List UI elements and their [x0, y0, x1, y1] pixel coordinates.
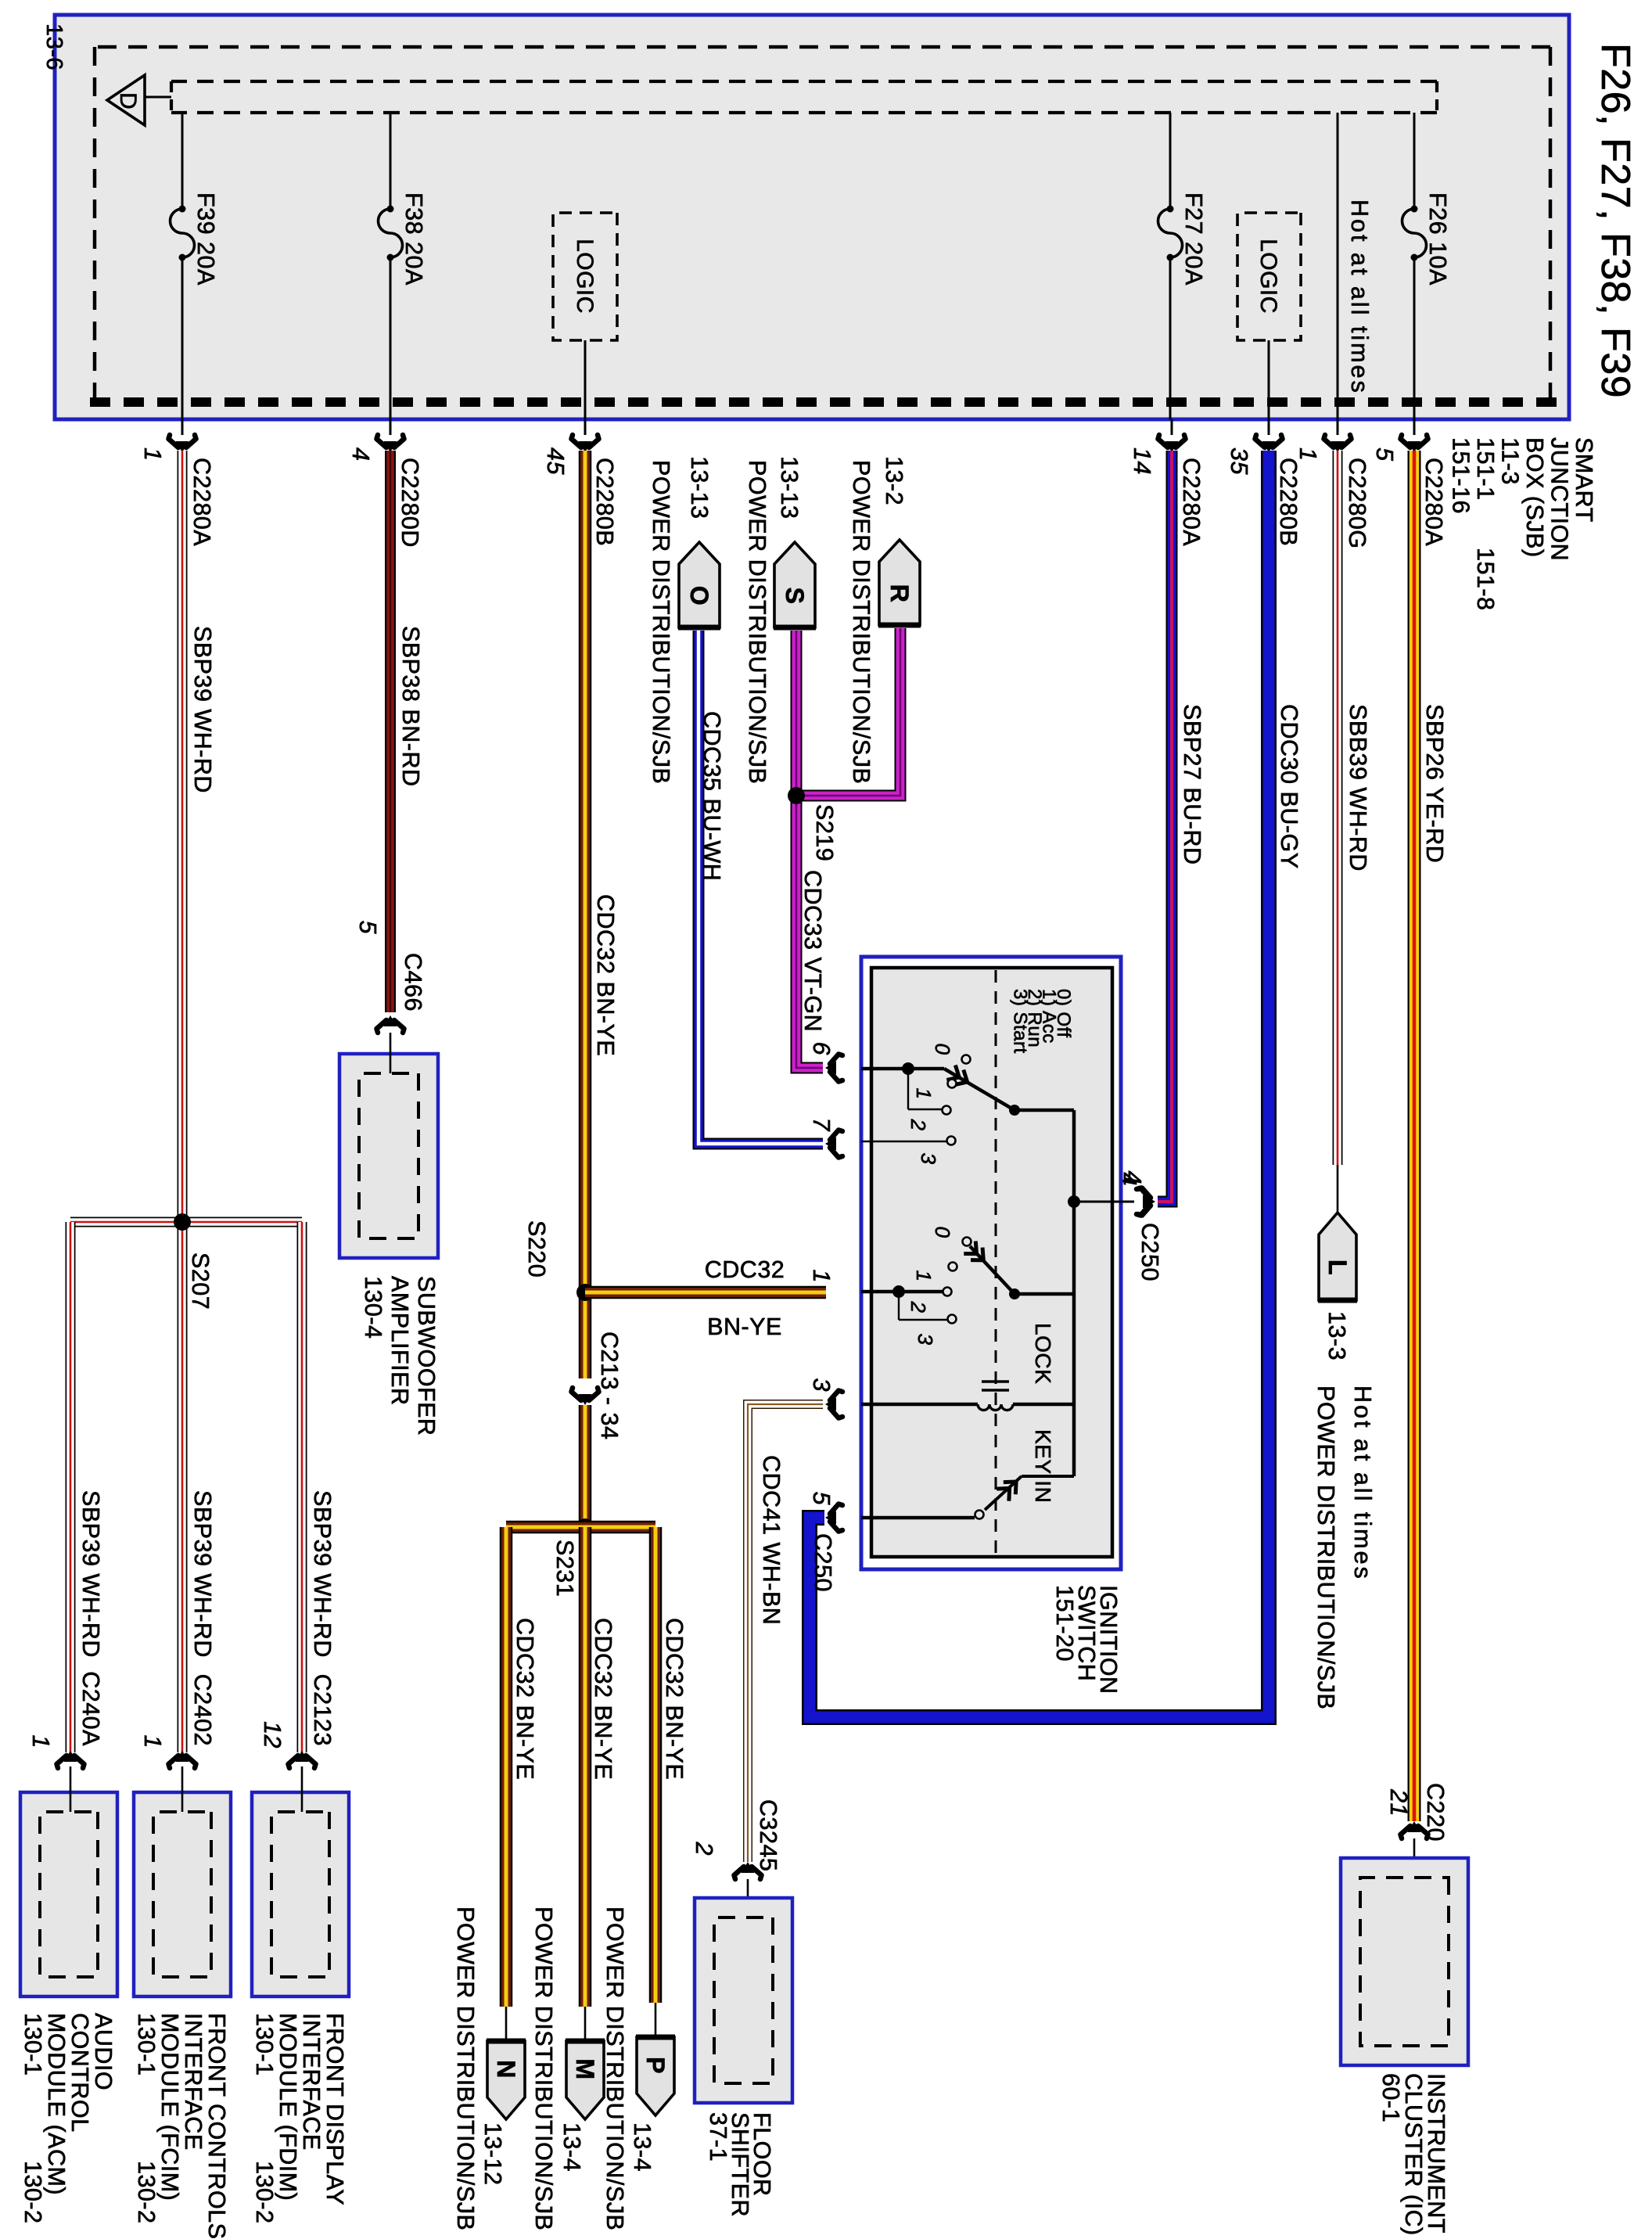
- svg-text:S231: S231: [551, 1540, 578, 1597]
- svg-text:INSTRUMENT: INSTRUMENT: [1423, 2073, 1449, 2234]
- svg-text:C220: C220: [1422, 1783, 1449, 1842]
- svg-text:SBP39 WH-RD: SBP39 WH-RD: [309, 1490, 336, 1658]
- svg-text:C250: C250: [810, 1533, 836, 1592]
- svg-text:5: 5: [354, 921, 381, 935]
- svg-text:4: 4: [1119, 1171, 1146, 1184]
- svg-text:SBB39 WH-RD: SBB39 WH-RD: [1345, 704, 1371, 872]
- svg-text:SBP38 BN-RD: SBP38 BN-RD: [397, 626, 424, 787]
- svg-text:S219: S219: [811, 804, 838, 861]
- svg-text:AUDIO: AUDIO: [90, 2013, 117, 2090]
- svg-text:BN-YE: BN-YE: [707, 1314, 782, 1340]
- svg-text:INTERFACE: INTERFACE: [180, 2013, 206, 2151]
- svg-text:C2402: C2402: [189, 1674, 216, 1746]
- svg-text:C2280A: C2280A: [189, 458, 215, 546]
- svg-text:INTERFACE: INTERFACE: [298, 2013, 325, 2151]
- svg-text:1: 1: [27, 1735, 54, 1748]
- svg-text:151-20: 151-20: [1051, 1585, 1078, 1662]
- svg-text:2: 2: [907, 1119, 930, 1131]
- svg-text:C2280B: C2280B: [1275, 458, 1302, 546]
- svg-text:13-4: 13-4: [629, 2122, 655, 2172]
- svg-text:13-13: 13-13: [686, 456, 713, 519]
- svg-text:13-4: 13-4: [558, 2122, 585, 2172]
- svg-text:SBP26 YE-RD: SBP26 YE-RD: [1421, 704, 1448, 863]
- svg-text:S207: S207: [187, 1252, 214, 1310]
- svg-text:35: 35: [1226, 447, 1252, 475]
- svg-text:3: 3: [917, 1153, 940, 1165]
- svg-text:SUBWOOFER: SUBWOOFER: [413, 1276, 440, 1436]
- svg-text:F26, F27, F38, F39: F26, F27, F38, F39: [1593, 43, 1638, 398]
- svg-text:MODULE (FCIM): MODULE (FCIM): [156, 2013, 183, 2201]
- svg-text:R: R: [885, 584, 914, 603]
- svg-text:MODULE (FDIM): MODULE (FDIM): [275, 2013, 301, 2201]
- svg-text:POWER DISTRIBUTION/SJB: POWER DISTRIBUTION/SJB: [744, 460, 770, 784]
- svg-text:CDC41 WH-BN: CDC41 WH-BN: [758, 1455, 785, 1625]
- svg-text:POWER DISTRIBUTION/SJB: POWER DISTRIBUTION/SJB: [452, 1907, 479, 2230]
- svg-text:Hot at all times: Hot at all times: [1346, 199, 1373, 395]
- svg-text:1: 1: [808, 1270, 835, 1283]
- svg-text:O: O: [685, 586, 713, 606]
- svg-text:C2280G: C2280G: [1344, 458, 1370, 549]
- svg-text:F27 20A: F27 20A: [1180, 192, 1207, 286]
- svg-text:C2280A: C2280A: [1178, 458, 1205, 546]
- svg-text:7: 7: [808, 1118, 835, 1132]
- svg-text:60-1: 60-1: [1377, 2073, 1404, 2122]
- svg-text:LOCK: LOCK: [1031, 1323, 1055, 1384]
- svg-text:1: 1: [139, 1735, 166, 1748]
- svg-text:POWER DISTRIBUTION/SJB: POWER DISTRIBUTION/SJB: [1313, 1385, 1339, 1709]
- svg-text:MODULE (ACM): MODULE (ACM): [43, 2013, 70, 2195]
- svg-text:AMPLIFIER: AMPLIFIER: [386, 1276, 413, 1406]
- svg-text:45: 45: [542, 447, 569, 475]
- svg-text:SMART: SMART: [1571, 437, 1597, 523]
- svg-text:0: 0: [931, 1044, 954, 1055]
- svg-text:3: 3: [914, 1334, 937, 1346]
- svg-text:FRONT CONTROLS: FRONT CONTROLS: [203, 2013, 230, 2239]
- svg-text:N: N: [492, 2060, 520, 2079]
- svg-text:F38 20A: F38 20A: [400, 192, 427, 286]
- svg-text:C466: C466: [400, 953, 426, 1012]
- svg-text:KEY IN: KEY IN: [1031, 1429, 1055, 1503]
- svg-text:130-1: 130-1: [20, 2013, 46, 2076]
- svg-text:12: 12: [259, 1721, 286, 1748]
- svg-text:37-1: 37-1: [705, 2112, 731, 2162]
- svg-text:130-4: 130-4: [360, 1276, 386, 1339]
- svg-text:F39 20A: F39 20A: [192, 192, 219, 286]
- svg-text:L: L: [1323, 1260, 1352, 1275]
- svg-text:21: 21: [1385, 1788, 1412, 1817]
- svg-text:SBP39 WH-RD: SBP39 WH-RD: [77, 1490, 104, 1658]
- svg-text:P: P: [641, 2057, 670, 2074]
- svg-text:POWER DISTRIBUTION/SJB: POWER DISTRIBUTION/SJB: [848, 460, 874, 784]
- svg-text:4: 4: [347, 447, 374, 461]
- svg-text:CONTROL: CONTROL: [66, 2013, 93, 2133]
- svg-text:14: 14: [1129, 447, 1155, 475]
- svg-text:C2280D: C2280D: [397, 458, 423, 548]
- svg-text:C250: C250: [1137, 1223, 1163, 1281]
- svg-text:LOGIC: LOGIC: [1255, 239, 1281, 314]
- svg-text:C240A: C240A: [77, 1671, 104, 1746]
- svg-text:C2280A: C2280A: [1420, 458, 1447, 546]
- svg-text:CDC32 BN-YE: CDC32 BN-YE: [590, 1618, 616, 1780]
- svg-text:M: M: [571, 2058, 599, 2079]
- svg-text:S: S: [781, 588, 809, 605]
- svg-text:13-2: 13-2: [881, 456, 907, 505]
- svg-text:C3245: C3245: [755, 1799, 781, 1871]
- svg-text:11-3: 11-3: [1497, 437, 1524, 485]
- svg-text:C2123: C2123: [309, 1674, 336, 1746]
- svg-text:6: 6: [808, 1042, 835, 1055]
- svg-text:5: 5: [808, 1492, 835, 1506]
- svg-text:130-2: 130-2: [133, 2161, 160, 2224]
- svg-text:CDC32 BN-YE: CDC32 BN-YE: [512, 1618, 538, 1780]
- svg-text:2: 2: [691, 1842, 717, 1856]
- svg-text:CDC33 VT-GN: CDC33 VT-GN: [799, 870, 826, 1032]
- svg-text:1: 1: [912, 1088, 936, 1100]
- svg-text:1: 1: [139, 447, 166, 461]
- svg-text:CDC32 BN-YE: CDC32 BN-YE: [661, 1618, 688, 1780]
- svg-text:1: 1: [912, 1270, 936, 1282]
- svg-text:FRONT DISPLAY: FRONT DISPLAY: [321, 2013, 348, 2205]
- svg-text:CLUSTER (IC): CLUSTER (IC): [1400, 2073, 1427, 2236]
- svg-text:Hot at all times: Hot at all times: [1349, 1385, 1376, 1581]
- svg-text:151-16: 151-16: [1448, 437, 1474, 514]
- svg-text:POWER DISTRIBUTION/SJB: POWER DISTRIBUTION/SJB: [648, 460, 674, 784]
- svg-text:3) Start: 3) Start: [1010, 989, 1031, 1054]
- svg-text:F26 10A: F26 10A: [1424, 192, 1451, 286]
- svg-text:D: D: [115, 92, 141, 110]
- svg-text:130-2: 130-2: [251, 2161, 278, 2224]
- svg-text:LOGIC: LOGIC: [572, 239, 598, 314]
- svg-text:3: 3: [808, 1378, 835, 1392]
- svg-text:POWER DISTRIBUTION/SJB: POWER DISTRIBUTION/SJB: [530, 1907, 557, 2230]
- svg-text:BOX (SJB): BOX (SJB): [1521, 437, 1548, 558]
- svg-text:CDC35 BU-WH: CDC35 BU-WH: [699, 711, 725, 881]
- svg-text:2: 2: [907, 1301, 930, 1314]
- svg-text:1: 1: [1295, 447, 1321, 461]
- svg-text:SBP27 BU-RD: SBP27 BU-RD: [1179, 704, 1205, 865]
- svg-text:130-1: 130-1: [251, 2013, 278, 2076]
- svg-text:C2280B: C2280B: [591, 458, 618, 546]
- svg-text:CDC30 BU-GY: CDC30 BU-GY: [1276, 704, 1302, 869]
- svg-text:130-1: 130-1: [133, 2013, 160, 2076]
- svg-text:0: 0: [931, 1227, 954, 1238]
- svg-text:SBP39 WH-RD: SBP39 WH-RD: [189, 626, 216, 793]
- svg-text:5: 5: [1371, 447, 1398, 462]
- svg-text:13-12: 13-12: [479, 2122, 506, 2186]
- svg-text:13-3: 13-3: [1323, 1311, 1350, 1360]
- svg-text:CDC32: CDC32: [705, 1256, 785, 1283]
- svg-text:130-2: 130-2: [20, 2161, 46, 2224]
- svg-text:151-1: 151-1: [1472, 437, 1499, 501]
- svg-text:C213 - 34: C213 - 34: [596, 1332, 623, 1439]
- svg-text:13-13: 13-13: [776, 456, 803, 519]
- svg-text:POWER DISTRIBUTION/SJB: POWER DISTRIBUTION/SJB: [602, 1907, 628, 2230]
- svg-text:S220: S220: [523, 1220, 550, 1278]
- svg-text:CDC32 BN-YE: CDC32 BN-YE: [592, 894, 619, 1056]
- svg-text:JUNCTION: JUNCTION: [1546, 437, 1573, 561]
- svg-text:151-8: 151-8: [1472, 548, 1499, 611]
- svg-text:13-6: 13-6: [41, 23, 66, 70]
- svg-text:SBP39 WH-RD: SBP39 WH-RD: [189, 1490, 216, 1658]
